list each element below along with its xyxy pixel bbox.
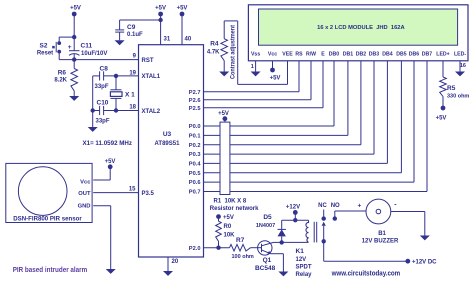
wire: [294, 212, 296, 220]
svg-text:Q1: Q1: [263, 257, 272, 264]
wire XTAL1 net: [93, 75, 100, 77]
svg-text:NC: NC: [318, 203, 327, 209]
svg-text:P3.5: P3.5: [142, 191, 155, 197]
relay core: [313, 222, 315, 243]
wire Vcc: [272, 61, 274, 70]
svg-text:R1 10K X 8: R1 10K X 8: [214, 199, 247, 205]
svg-text:+: +: [358, 203, 362, 210]
wire coil bottom rail: [282, 241, 309, 243]
svg-text:+5V: +5V: [436, 116, 447, 122]
ground (pin 20): [163, 271, 173, 276]
node: RST rail junction: [72, 57, 76, 61]
svg-text:LED+: LED+: [436, 51, 449, 57]
node C8/C10 left: [91, 108, 95, 112]
wire: [120, 19, 161, 21]
svg-text:P0.1: P0.1: [189, 134, 201, 140]
svg-text:8.2K: 8.2K: [54, 78, 67, 84]
svg-text:33pF: 33pF: [95, 84, 109, 90]
svg-text:SPDT: SPDT: [296, 264, 312, 270]
svg-text:Vss: Vss: [251, 51, 260, 57]
wire common to +12V DC: [323, 241, 325, 261]
switch S2 (Reset pushbutton): [57, 41, 61, 45]
svg-text:RS: RS: [295, 51, 303, 57]
svg-text:XTAL2: XTAL2: [142, 109, 161, 115]
wire P0.7-DB7: [204, 191, 428, 193]
ground (buzzer): [420, 236, 430, 241]
wire NO to buzzer: [335, 210, 366, 212]
node XTAL1/X1: [114, 74, 118, 78]
svg-text:DB4: DB4: [382, 51, 392, 57]
wire: [181, 14, 183, 45]
wire P2.6-R/W: [204, 99, 312, 101]
svg-text:+12V: +12V: [286, 204, 300, 210]
wire P2.0: [204, 247, 230, 249]
wire: [92, 76, 94, 127]
relay armature: [322, 222, 326, 226]
pin 20 GND: [167, 257, 169, 271]
svg-text:19: 19: [129, 71, 136, 77]
svg-text:R7: R7: [236, 237, 245, 244]
wire P0.4-DB4: [204, 162, 388, 164]
ground (Q1 emitter): [278, 272, 288, 277]
svg-text:+12V DC: +12V DC: [412, 260, 437, 266]
svg-text:E: E: [321, 51, 325, 57]
ground (C9): [115, 40, 125, 45]
svg-text:100 ohm: 100 ohm: [232, 254, 254, 260]
wire P0.5-DB5: [204, 172, 402, 174]
capacitor C10: [99, 106, 101, 115]
svg-text:X 1: X 1: [125, 92, 135, 99]
svg-text:+5V: +5V: [155, 6, 166, 12]
ground (PIR GND): [106, 269, 116, 274]
svg-text:DSN-FIR800 PIR sensor: DSN-FIR800 PIR sensor: [13, 215, 82, 222]
wire P0.0-DB0: [204, 125, 335, 127]
svg-text:P0.5: P0.5: [189, 171, 201, 177]
svg-text:4.7K: 4.7K: [207, 50, 220, 56]
ground (R6): [69, 96, 79, 101]
wire base: [251, 247, 262, 249]
svg-text:40: 40: [185, 37, 192, 43]
capacitor C11: [69, 50, 80, 52]
svg-text:P0.7: P0.7: [189, 190, 201, 196]
relay K1 coil: [306, 220, 309, 242]
svg-text:R5: R5: [447, 85, 456, 92]
resistor R6: [73, 60, 75, 69]
svg-text:20: 20: [172, 259, 179, 265]
svg-text:Contrast adjustment: Contrast adjustment: [231, 25, 237, 79]
svg-text:33pF: 33pF: [96, 119, 110, 125]
svg-text:DB0: DB0: [329, 51, 339, 57]
wire LED-: [459, 61, 461, 72]
svg-text:C11: C11: [81, 43, 93, 50]
wire P2.5-E: [204, 107, 324, 109]
transistor Q1 BC548: [258, 241, 272, 255]
wire P0.3-DB3: [204, 153, 375, 155]
buzzer B1: [366, 199, 391, 224]
wire: [224, 119, 226, 122]
svg-text:Vcc: Vcc: [80, 179, 91, 185]
svg-text:16: 16: [460, 63, 466, 69]
svg-text:+5V: +5V: [105, 159, 116, 165]
svg-text:K1: K1: [296, 248, 305, 255]
svg-text:Reset: Reset: [37, 51, 53, 57]
wire Vss: [255, 61, 257, 72]
svg-text:Relay: Relay: [296, 272, 313, 278]
svg-text:DB2: DB2: [356, 51, 366, 57]
svg-text:AT89S51: AT89S51: [155, 141, 181, 147]
svg-text:Vcc: Vcc: [268, 51, 277, 57]
svg-text:P0.0: P0.0: [189, 124, 201, 130]
svg-text:C10: C10: [97, 100, 109, 107]
svg-text:C9: C9: [127, 24, 136, 31]
svg-text:GND: GND: [78, 203, 91, 209]
svg-text:12V: 12V: [296, 257, 307, 263]
svg-text:www.circuitstoday.com: www.circuitstoday.com: [331, 268, 401, 277]
svg-text:R/W: R/W: [306, 51, 316, 57]
wire buzzer - lead: [391, 211, 425, 213]
svg-text:15: 15: [129, 187, 136, 193]
IC U3 AT89S51 microcontroller: [139, 45, 204, 257]
ground (R4): [219, 72, 229, 77]
wire: [160, 14, 162, 45]
svg-text:DB3: DB3: [369, 51, 379, 57]
svg-text:LED-: LED-: [454, 51, 466, 57]
svg-text:31: 31: [164, 37, 171, 43]
crystal X1: [115, 76, 117, 90]
capacitor C8: [99, 71, 101, 80]
svg-text:P2.6: P2.6: [189, 98, 201, 104]
svg-text:DB7: DB7: [422, 51, 432, 57]
wire emitter: [271, 253, 284, 255]
svg-text:1: 1: [251, 64, 254, 70]
wire: [73, 54, 75, 60]
node XTAL2/X1: [114, 108, 118, 112]
svg-text:12V BUZZER: 12V BUZZER: [362, 239, 399, 245]
ground (XTAL caps): [88, 127, 98, 132]
svg-text:BC548: BC548: [255, 265, 276, 272]
svg-text:DB6: DB6: [409, 51, 419, 57]
resistor network R1 10K x 8: [220, 122, 230, 194]
wire P2.7-RS: [204, 91, 300, 93]
wire OUT to P3.5: [93, 192, 138, 194]
wire P0.2-DB2: [204, 144, 361, 146]
svg-text:P0.3: P0.3: [189, 152, 201, 158]
wire XTAL2 net: [93, 110, 100, 112]
resistor R5 330 ohm: [442, 61, 444, 77]
wire: [73, 14, 75, 51]
ground (LED-): [455, 72, 465, 77]
svg-text:1N4007: 1N4007: [256, 223, 275, 229]
PIR sensor module DSN-FIR800: [6, 163, 92, 222]
svg-text:PIR based intruder alarm: PIR based intruder alarm: [13, 265, 88, 274]
svg-text:NO: NO: [331, 203, 340, 209]
svg-text:R6: R6: [58, 70, 67, 77]
capacitor C9: [119, 20, 121, 30]
wire VEE net: [224, 20, 238, 22]
wire RST net: [59, 59, 138, 61]
wire P0.6-DB6: [204, 181, 415, 183]
svg-text:+5V: +5V: [177, 6, 188, 12]
svg-text:U3: U3: [163, 131, 172, 138]
diode D5 1N4007: [281, 220, 283, 229]
svg-text:B1: B1: [378, 231, 386, 237]
resistor R0 10K: [218, 217, 220, 222]
svg-text:+5V: +5V: [70, 6, 81, 12]
svg-text:P0.4: P0.4: [189, 162, 202, 168]
svg-text:+5V: +5V: [270, 76, 281, 82]
svg-text:R4: R4: [210, 41, 219, 48]
wire collector: [274, 241, 282, 243]
svg-text:R0: R0: [224, 224, 232, 230]
svg-text:+: +: [68, 44, 72, 51]
wire P0.1-DB1: [204, 134, 348, 136]
svg-text:VEE: VEE: [282, 51, 293, 57]
svg-text:P2.5: P2.5: [189, 106, 201, 112]
wire: [109, 167, 111, 180]
svg-text:Resistor network: Resistor network: [210, 206, 259, 212]
LCD screen: [259, 9, 458, 45]
svg-text:XTAL1: XTAL1: [142, 74, 161, 80]
ground (Vss): [251, 72, 261, 77]
svg-text:P0.6: P0.6: [189, 180, 201, 186]
wire: [58, 52, 60, 60]
svg-text:16 x 2 LCD MODULE JHD 162A: 16 x 2 LCD MODULE JHD 162A: [317, 25, 405, 31]
resistor R4 4.7K (contrast): [223, 21, 225, 39]
svg-text:S2: S2: [40, 43, 48, 50]
wire: [58, 37, 60, 43]
wire GND: [93, 205, 111, 207]
svg-text:C8: C8: [100, 66, 109, 73]
svg-text:DB5: DB5: [396, 51, 406, 57]
svg-text:RST: RST: [142, 58, 154, 64]
svg-text:X1= 11.0592 MHz: X1= 11.0592 MHz: [83, 140, 133, 147]
svg-text:0.1uF: 0.1uF: [127, 32, 143, 38]
svg-text:10uF/10V: 10uF/10V: [81, 51, 107, 57]
LCD module box: [248, 5, 468, 61]
svg-text:18: 18: [129, 105, 136, 111]
svg-text:+5V: +5V: [223, 215, 234, 221]
svg-text:P2.7: P2.7: [189, 90, 201, 96]
svg-text:330 ohm: 330 ohm: [447, 94, 469, 100]
resistor R7 100 ohm: [230, 244, 251, 251]
+5V supply (R0): [216, 214, 221, 219]
svg-text:D5: D5: [263, 214, 272, 221]
svg-text:P0.2: P0.2: [189, 143, 201, 149]
svg-text:+5V: +5V: [218, 111, 229, 117]
svg-text:P2.0: P2.0: [189, 246, 201, 252]
svg-text:DB1: DB1: [343, 51, 353, 57]
svg-text:OUT: OUT: [78, 191, 91, 197]
svg-text:10K: 10K: [224, 233, 236, 239]
